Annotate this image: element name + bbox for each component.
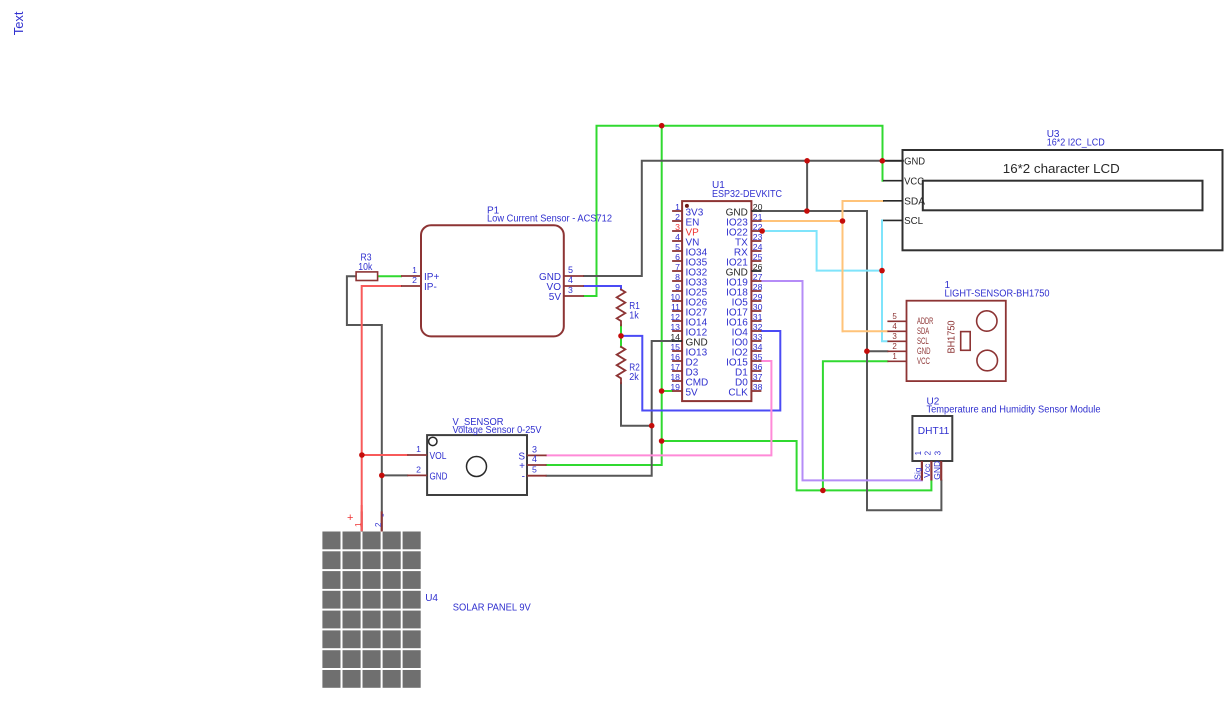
junction 5V BH1750 branch xyxy=(820,488,826,494)
wire GND net: R3 left to solar panel pin2 xyxy=(347,276,382,530)
svg-text:5V: 5V xyxy=(686,387,699,398)
svg-text:12: 12 xyxy=(670,312,680,322)
svg-text:34: 34 xyxy=(753,342,763,352)
P1 pin names xyxy=(424,272,561,303)
BH1750 pin names xyxy=(917,316,934,366)
svg-text:1: 1 xyxy=(412,265,417,275)
V_SENSOR trimmer circle xyxy=(467,457,487,477)
V_SENSOR pin numbers xyxy=(416,444,537,475)
BH1750 pin stubs xyxy=(887,321,906,361)
wire GND net: vertical drop to U1 pin20 xyxy=(806,161,808,211)
wire SDA net: U1 IO23 to SDA junction xyxy=(761,220,842,222)
svg-text:GND: GND xyxy=(904,156,925,168)
U2 pin stubs xyxy=(922,461,941,481)
V_SENSOR pin names xyxy=(430,451,526,483)
wire red net: covers U4 pin1 stub xyxy=(361,505,363,531)
svg-text:27: 27 xyxy=(753,272,763,282)
svg-text:16: 16 xyxy=(670,352,680,362)
svg-text:11: 11 xyxy=(671,302,680,312)
svg-text:4: 4 xyxy=(568,275,573,285)
svg-text:1: 1 xyxy=(354,522,363,527)
U2 pin numbers (rotated) xyxy=(914,450,942,455)
svg-text:6: 6 xyxy=(675,252,680,262)
svg-text:GND: GND xyxy=(917,346,931,356)
wire SDA net: vertical xyxy=(842,201,844,331)
svg-text:28: 28 xyxy=(753,282,763,292)
svg-text:3: 3 xyxy=(892,332,897,341)
current sensor P1 body xyxy=(421,225,564,336)
svg-text:U4: U4 xyxy=(425,593,438,604)
P1 pin numbers xyxy=(412,265,573,295)
wire blue net: ACS712 VO to R1 top xyxy=(584,286,621,290)
U4 pin stubs xyxy=(362,511,382,531)
junction green crossing GND rail xyxy=(880,158,886,164)
wire SDA net: to LCD SDA xyxy=(843,200,884,202)
svg-text:-: - xyxy=(522,472,525,483)
svg-text:5: 5 xyxy=(532,465,537,475)
BH1750 pin numbers xyxy=(892,312,897,361)
svg-text:4: 4 xyxy=(532,454,537,464)
wire GND net: U1 pin20 GND to DHT11 GND xyxy=(761,211,941,510)
svg-text:16*2 character LCD: 16*2 character LCD xyxy=(1003,162,1120,176)
wire GND net: branch to BH1750 GND xyxy=(867,350,887,352)
svg-text:Vcc: Vcc xyxy=(922,463,932,478)
resistor R3 body xyxy=(356,272,378,281)
BH1750 top circle xyxy=(977,311,997,331)
svg-text:2: 2 xyxy=(675,212,680,222)
svg-text:24: 24 xyxy=(753,242,763,252)
svg-text:14: 14 xyxy=(670,332,680,342)
wire red net: branch to V_SENSOR VOL xyxy=(362,454,408,456)
U1 pin numbers xyxy=(670,202,762,392)
wire SCL net: U1 IO22 to SCL junction xyxy=(761,231,882,271)
svg-text:SDA: SDA xyxy=(904,196,925,208)
LCD U3 outer body xyxy=(903,150,1223,250)
svg-text:19: 19 xyxy=(670,382,680,392)
svg-text:Voltage Sensor 0-25V: Voltage Sensor 0-25V xyxy=(453,425,542,436)
svg-text:GND: GND xyxy=(932,461,942,480)
svg-text:IP-: IP- xyxy=(424,282,437,293)
svg-text:DHT11: DHT11 xyxy=(918,425,950,437)
svg-text:4: 4 xyxy=(892,322,897,331)
svg-text:21: 21 xyxy=(753,212,763,222)
wire GND net: R2 bottom to GND rail xyxy=(621,383,652,426)
U2 pin names (rotated) xyxy=(912,461,942,480)
svg-text:29: 29 xyxy=(753,292,763,302)
junction GND R2 bottom xyxy=(649,423,655,429)
junction GND BH1750 branch xyxy=(864,348,870,354)
svg-text:36: 36 xyxy=(753,362,763,372)
svg-text:2: 2 xyxy=(412,275,417,285)
svg-text:SCL: SCL xyxy=(904,215,923,227)
junction 5V branch xyxy=(659,438,665,444)
svg-text:37: 37 xyxy=(753,372,763,382)
svg-text:1: 1 xyxy=(892,352,897,361)
svg-text:SOLAR PANEL 9V: SOLAR PANEL 9V xyxy=(453,602,531,613)
svg-text:25: 25 xyxy=(753,252,763,262)
junction R1/R2 divider node xyxy=(618,333,624,339)
IC U1 ESP32-DEVKITC body xyxy=(682,201,751,401)
U3 pin names xyxy=(904,156,925,228)
svg-text:VOL: VOL xyxy=(430,451,447,462)
junction SCL at U1 pin22 xyxy=(759,228,765,234)
svg-text:BH1750: BH1750 xyxy=(947,320,958,353)
U1 pin-1 marker dot xyxy=(685,204,689,208)
svg-text:16*2 I2C_LCD: 16*2 I2C_LCD xyxy=(1047,138,1105,149)
sensor U2 DHT11 body xyxy=(912,416,952,461)
svg-text:30: 30 xyxy=(753,302,763,312)
junction 5V at U1 pin19 xyxy=(659,388,665,394)
svg-text:33: 33 xyxy=(753,332,763,342)
voltage sensor V_SENSOR body xyxy=(427,435,527,495)
wire SCL net: down to BH1750 SCL xyxy=(882,271,887,342)
svg-text:7: 7 xyxy=(675,262,680,272)
svg-text:4: 4 xyxy=(675,232,680,242)
wire GND net: U1 pin14 GND to V_SENSOR - xyxy=(547,341,673,476)
svg-text:13: 13 xyxy=(670,322,680,332)
resistor R2 (zigzag) xyxy=(617,347,626,383)
svg-text:5: 5 xyxy=(568,265,573,275)
svg-text:1: 1 xyxy=(416,444,421,454)
svg-text:2k: 2k xyxy=(629,372,639,383)
wire 5V net: branch to BH1750 VCC xyxy=(823,361,888,490)
BH1750 inner rect xyxy=(961,332,971,351)
junction SCL tee xyxy=(879,268,885,274)
svg-text:17: 17 xyxy=(670,362,680,372)
svg-text:Sig: Sig xyxy=(912,467,922,480)
svg-text:35: 35 xyxy=(753,352,763,362)
svg-text:2: 2 xyxy=(892,342,897,351)
svg-text:2: 2 xyxy=(374,522,383,527)
svg-text:VCC: VCC xyxy=(917,356,930,366)
junction red at VOL xyxy=(359,452,365,458)
junction GND top rail xyxy=(804,158,810,164)
svg-text:5: 5 xyxy=(892,312,897,321)
svg-text:26: 26 xyxy=(753,262,763,272)
svg-text:2: 2 xyxy=(416,464,421,474)
svg-text:Text: Text xyxy=(11,11,26,35)
svg-text:ESP32-DEVKITC: ESP32-DEVKITC xyxy=(712,189,782,200)
svg-text:20: 20 xyxy=(753,202,763,212)
junction GND at V_SENSOR xyxy=(379,473,385,479)
wire blue net: R1/R2 divider to U1 IO4 xyxy=(621,331,780,411)
svg-text:CLK: CLK xyxy=(728,387,748,398)
svg-text:9: 9 xyxy=(675,282,680,292)
svg-text:3: 3 xyxy=(675,222,680,232)
light sensor body LIGHT-SENSOR-BH1750 xyxy=(907,301,1006,381)
wire 5V net: vertical branch to V_SENSOR + xyxy=(547,126,662,465)
wire purple net: U1 IO19 to DHT11 Sig xyxy=(761,281,922,480)
wire R3 to ACS712 IP+ xyxy=(378,275,401,277)
svg-text:5V: 5V xyxy=(549,292,562,303)
svg-text:Low Current Sensor - ACS712: Low Current Sensor - ACS712 xyxy=(487,214,612,225)
wire 5V net: stub link to U1 pin19 5V xyxy=(662,390,672,392)
U3 pin stubs xyxy=(883,161,903,221)
svg-text:31: 31 xyxy=(753,312,763,322)
junction 5V/top rail xyxy=(659,123,665,129)
junction GND at U1 pin20 xyxy=(804,208,810,214)
wire GND net: ACS712 GND to LCD GND xyxy=(584,161,903,276)
svg-text:ADDR: ADDR xyxy=(917,316,934,326)
wire GND net: branch to V_SENSOR GND xyxy=(382,474,407,476)
wire SDA net: to BH1750 SDA xyxy=(843,330,888,332)
svg-text:10: 10 xyxy=(670,292,680,302)
solar panel U4 cells xyxy=(322,532,420,688)
P1 pin stubs xyxy=(401,276,584,296)
wire R1 bottom to R2 top xyxy=(620,325,622,347)
V_SENSOR pin stubs xyxy=(407,455,546,476)
svg-text:1: 1 xyxy=(914,450,923,455)
resistor R1 (zigzag) xyxy=(617,290,626,326)
svg-text:+: + xyxy=(519,461,525,472)
wire 5V net: ACS712 5V to LCD VCC xyxy=(584,126,883,296)
V_SENSOR mounting hole circle xyxy=(429,437,437,445)
svg-text:8: 8 xyxy=(675,272,680,282)
svg-text:5: 5 xyxy=(675,242,680,252)
svg-text:1k: 1k xyxy=(629,310,639,321)
svg-text:2: 2 xyxy=(924,450,933,455)
svg-text:3: 3 xyxy=(532,444,537,454)
svg-text:10k: 10k xyxy=(358,262,373,273)
wire 5V net: branch to DHT11 Vcc xyxy=(662,441,932,490)
wire pink net: U1 IO15 to V_SENSOR S xyxy=(547,361,772,455)
svg-text:-: - xyxy=(377,513,389,517)
svg-text:18: 18 xyxy=(670,372,680,382)
svg-text:SCL: SCL xyxy=(917,336,929,346)
U1 pin names xyxy=(686,207,749,398)
svg-text:Temperature and Humidity Senso: Temperature and Humidity Sensor Module xyxy=(927,405,1101,416)
wire SCL net: up to LCD SCL xyxy=(881,220,883,270)
svg-text:1: 1 xyxy=(675,202,680,212)
svg-text:LIGHT-SENSOR-BH1750: LIGHT-SENSOR-BH1750 xyxy=(945,288,1050,299)
U1 pin stubs xyxy=(672,211,761,391)
svg-text:SDA: SDA xyxy=(917,326,929,336)
svg-text:VCC: VCC xyxy=(904,176,924,188)
svg-text:32: 32 xyxy=(753,322,763,332)
svg-text:3: 3 xyxy=(934,450,943,455)
LCD display window rect xyxy=(923,181,1203,211)
svg-text:15: 15 xyxy=(670,342,680,352)
svg-text:GND: GND xyxy=(430,471,448,482)
svg-text:+: + xyxy=(347,512,353,524)
svg-text:38: 38 xyxy=(753,382,763,392)
BH1750 bottom circle xyxy=(977,350,998,371)
junction SDA at U1 pin21 xyxy=(840,218,846,224)
wire red net: ACS712 IP- to solar panel pin1 + xyxy=(362,286,401,530)
svg-text:3: 3 xyxy=(568,285,573,295)
